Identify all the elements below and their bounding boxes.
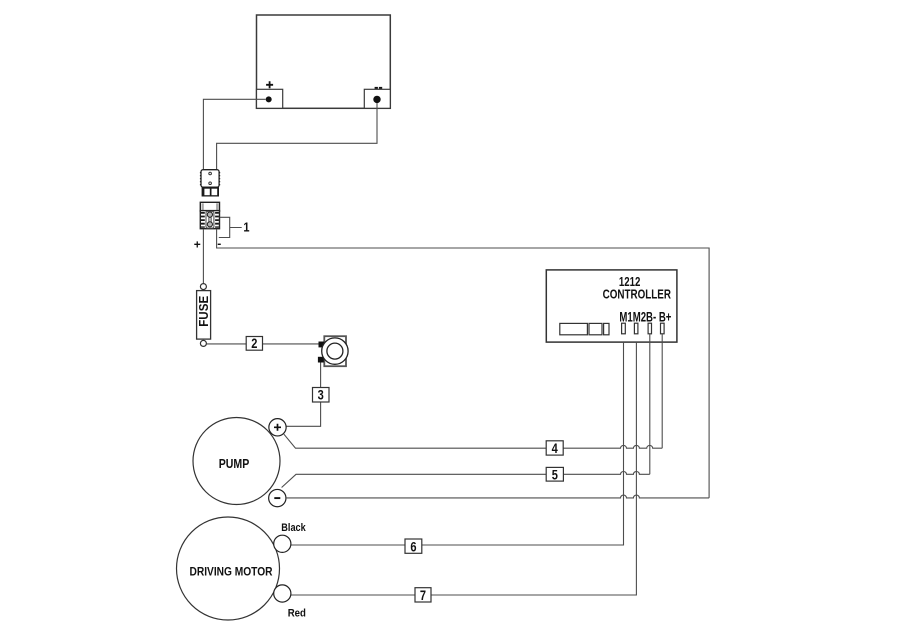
fuse F1 top terminal xyxy=(200,284,206,290)
wire connector positive down to fuse xyxy=(202,229,204,284)
connector upper plug leg block xyxy=(202,187,219,196)
driving motor M2 body xyxy=(177,517,280,620)
controller pin B+ xyxy=(661,323,665,334)
label 3 box xyxy=(313,388,330,403)
wire controller B- down xyxy=(649,334,651,475)
callout bracket for label 1 xyxy=(219,217,242,237)
key switch S1 body xyxy=(324,336,346,366)
svg-text:3: 3 xyxy=(318,388,324,403)
connector upper plug body xyxy=(201,170,219,187)
battery negative terminal dot xyxy=(373,96,380,103)
wire 5 pump negative to controller B- xyxy=(282,471,650,487)
controller terminal block mid xyxy=(589,323,602,334)
pump negative terminal xyxy=(269,489,286,506)
connector 1 stripe column right xyxy=(215,212,219,228)
svg-text:2: 2 xyxy=(251,336,257,351)
svg-text:CONTROLLER: CONTROLLER xyxy=(603,287,671,301)
label 2 box xyxy=(246,337,262,351)
connector 1 contact bottom xyxy=(207,222,212,227)
wire controller B+ down xyxy=(661,334,663,448)
svg-text:FUSE: FUSE xyxy=(197,296,211,327)
wire connector negative to right rail xyxy=(217,229,709,498)
wire key switch to pump positive xyxy=(286,363,320,427)
controller terminal block large xyxy=(560,323,588,334)
key switch S1 pin upper xyxy=(319,342,325,348)
motor black terminal xyxy=(274,535,291,552)
svg-text:+: + xyxy=(194,238,201,252)
fuse F1 body xyxy=(197,291,211,340)
wire 4 pump positive to controller B+ xyxy=(284,434,662,448)
svg-text:6: 6 xyxy=(410,539,416,554)
controller U1 body xyxy=(546,270,677,342)
svg-text:Black: Black xyxy=(281,522,306,534)
battery BT1 body xyxy=(257,15,391,108)
battery negative terminal box xyxy=(364,89,390,108)
wire 7 controller M2 to motor red xyxy=(291,342,637,595)
connector upper plug serration left xyxy=(200,172,202,186)
wire pump negative to battery negative rail xyxy=(286,495,709,498)
connector upper plug screw bottom xyxy=(209,182,212,185)
fuse F1 bottom terminal xyxy=(200,340,206,346)
key switch S1 outer circle xyxy=(322,338,348,364)
battery minus label xyxy=(375,87,378,89)
wire fuse to key switch xyxy=(206,343,318,345)
svg-text:Red: Red xyxy=(288,608,306,620)
connector 1 center insert xyxy=(206,211,214,228)
svg-text:4: 4 xyxy=(552,441,558,456)
pump M1 body xyxy=(193,418,280,505)
svg-text:5: 5 xyxy=(552,467,558,482)
label 6 box xyxy=(405,539,422,553)
controller pin M2 xyxy=(634,323,638,334)
connector 1 contact top xyxy=(207,212,212,217)
motor red terminal xyxy=(274,585,291,602)
svg-text:PUMP: PUMP xyxy=(219,457,250,471)
key switch S1 inner circle xyxy=(327,343,343,359)
connector upper plug screw top xyxy=(209,172,212,175)
controller pin M1 xyxy=(622,323,626,334)
battery positive terminal dot xyxy=(266,96,272,102)
pump positive terminal xyxy=(269,419,286,436)
connector 1 lower socket top frame xyxy=(200,202,219,211)
label 5 box xyxy=(546,467,563,481)
svg-text:7: 7 xyxy=(420,588,426,603)
connector 1 stripe column left xyxy=(201,212,205,228)
svg-text:1: 1 xyxy=(243,219,249,234)
connector upper plug serration right xyxy=(219,172,221,186)
label 7 box xyxy=(415,588,431,602)
controller terminal block small xyxy=(604,323,609,334)
wire battery positive to connector xyxy=(203,99,265,169)
battery positive terminal box xyxy=(257,89,283,108)
battery plus label xyxy=(266,81,273,88)
connector 1 lower socket body xyxy=(200,211,219,229)
wire 6 controller M1 to motor black xyxy=(291,342,624,545)
controller pin B- xyxy=(648,323,651,334)
svg-text:DRIVING MOTOR: DRIVING MOTOR xyxy=(190,564,273,578)
wire battery negative to connector xyxy=(217,103,377,169)
label 4 box xyxy=(546,441,563,455)
svg-text:M1M2B- B+: M1M2B- B+ xyxy=(619,310,671,325)
key switch S1 pin lower xyxy=(318,357,324,363)
